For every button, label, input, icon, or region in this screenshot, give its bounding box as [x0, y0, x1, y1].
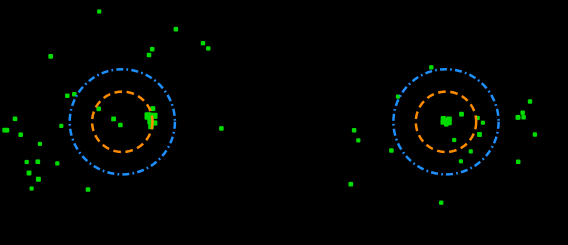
star dot — [206, 46, 210, 50]
star dot — [152, 120, 157, 125]
star dot — [145, 112, 152, 119]
star dot — [452, 138, 456, 142]
star dot — [219, 126, 224, 131]
star dot — [59, 124, 63, 128]
star dot — [352, 128, 357, 133]
star dot — [35, 159, 40, 164]
star dot (merged pair) — [2, 128, 9, 133]
star dot — [459, 112, 464, 117]
star dot — [147, 53, 152, 58]
right outer annulus circle (blue dash-dot) — [393, 69, 498, 174]
star dot — [150, 47, 155, 52]
star dot — [174, 27, 179, 32]
star dot — [55, 161, 59, 165]
star dot — [389, 148, 394, 153]
star dot — [148, 124, 154, 130]
star dot — [201, 41, 205, 45]
star dot — [521, 115, 526, 120]
star dot — [520, 110, 525, 115]
star dot — [348, 182, 353, 187]
star dot — [86, 187, 91, 192]
star dot — [516, 160, 521, 165]
star dot — [25, 160, 29, 164]
star dot — [516, 115, 521, 120]
star dot — [150, 106, 155, 111]
star dot — [18, 132, 23, 137]
star dot — [528, 99, 532, 103]
star dot — [396, 95, 400, 99]
star dot — [118, 123, 123, 128]
star dot — [65, 93, 70, 98]
star dot — [444, 122, 449, 127]
star dot — [476, 116, 480, 120]
star dot — [151, 113, 157, 119]
star dot — [481, 121, 485, 125]
star dot — [27, 171, 32, 176]
right inner aperture circle (orange dashed) — [416, 92, 476, 152]
star dot — [441, 116, 446, 121]
star dot — [429, 65, 433, 69]
star dot — [447, 120, 452, 125]
star dot — [477, 132, 482, 137]
star dot — [38, 142, 42, 146]
star dot — [111, 116, 116, 121]
star dot — [36, 177, 41, 182]
left outer annulus circle (blue dash-dot) — [70, 69, 175, 174]
star dot — [147, 118, 153, 124]
star dot — [469, 149, 473, 153]
star dot — [356, 138, 360, 142]
star dot — [441, 120, 446, 125]
star dot — [13, 117, 18, 122]
star dot — [439, 201, 443, 205]
star dot — [459, 159, 463, 163]
star dot — [30, 186, 34, 190]
star dot — [533, 132, 537, 136]
star dot — [96, 107, 101, 112]
star dot — [97, 9, 101, 13]
star dot — [48, 54, 53, 59]
star dot — [446, 117, 452, 123]
star dot — [443, 118, 449, 124]
star dot — [72, 92, 77, 97]
left inner aperture circle (orange dashed) — [92, 92, 152, 152]
